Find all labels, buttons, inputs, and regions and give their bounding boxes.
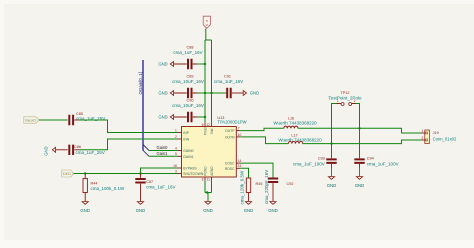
pin 2 INN: [175, 135, 190, 142]
svg-text:C92: C92: [287, 182, 294, 186]
svg-text:16: 16: [173, 164, 177, 168]
ground below C93: [327, 177, 337, 188]
svg-text:Gain1: Gain1: [157, 151, 169, 156]
wire C85 to INP: [79, 120, 178, 133]
svg-text:1: 1: [175, 128, 177, 132]
svg-text:GND: GND: [203, 208, 213, 213]
svg-text:J19: J19: [433, 131, 439, 135]
svg-text:GND: GND: [268, 208, 278, 213]
svg-text:13: 13: [238, 164, 242, 168]
svg-text:GND: GND: [250, 91, 259, 96]
wire VauxD to C85: [39, 119, 68, 121]
wire power stem: [205, 29, 207, 41]
svg-text:Gain0: Gain0: [157, 145, 169, 150]
pin 2 J19: [421, 136, 425, 140]
capacitor C86: [69, 145, 104, 155]
pin 16 BYPASS: [173, 164, 197, 171]
wire TP12 pin2 down to C94: [356, 104, 360, 159]
ground below C92: [268, 202, 278, 213]
wire C86 to INN: [79, 139, 178, 150]
pin 4 GAIN0: [175, 146, 194, 153]
svg-text:PGND: PGND: [203, 166, 207, 176]
pin 13 ROSC: [225, 164, 242, 171]
svg-text:GND: GND: [44, 146, 49, 155]
gnd flag left of C90: [158, 115, 173, 120]
ground below U13: [203, 202, 213, 213]
resistor R44: [83, 174, 125, 202]
svg-text:12: 12: [206, 123, 210, 127]
svg-text:10: 10: [238, 133, 242, 137]
wire bridge row 93: [205, 92, 212, 94]
svg-text:Conn_01x02: Conn_01x02: [433, 137, 457, 142]
gnd flag left of C88: [158, 62, 173, 67]
connector J19: [425, 130, 457, 144]
wire DED to SHUTDOWN: [74, 173, 178, 175]
svg-text:GND: GND: [80, 208, 90, 213]
svg-text:1: 1: [337, 99, 339, 103]
svg-text:cma_10uF_16V: cma_10uF_16V: [172, 79, 204, 84]
svg-text:GND: GND: [158, 62, 167, 67]
junction OUTN row / C93 branch: [330, 142, 332, 144]
capacitor C92: [264, 170, 293, 204]
svg-text:VauxD: VauxD: [25, 118, 37, 123]
wire ROSC to R45: [240, 168, 248, 178]
svg-text:C87: C87: [146, 180, 153, 184]
svg-text:GAIN1: GAIN1: [183, 155, 193, 159]
svg-text:Vdd: Vdd: [210, 128, 214, 134]
junction at C87: [139, 172, 141, 174]
wire COSC to C92: [240, 163, 273, 177]
hierarchical label VauxD: [24, 117, 39, 123]
capacitor C89: [172, 75, 205, 99]
ground below R44: [80, 202, 90, 213]
wire BYPASS drop: [141, 168, 178, 174]
pin 5 GAIN1: [175, 152, 194, 159]
inductor L16: [273, 116, 317, 128]
op-amp U13 TPA2000D1PW body: [182, 116, 247, 177]
svg-text:cma_1uF_16V: cma_1uF_16V: [173, 50, 202, 55]
svg-text:INP: INP: [183, 131, 189, 135]
junction PVdd row93: [204, 92, 206, 94]
svg-text:7: 7: [238, 127, 240, 131]
wire power split bridge: [205, 40, 212, 123]
junction bottom gnd: [206, 191, 208, 193]
pin 8 PGND (bottom): [202, 166, 208, 182]
svg-text:2: 2: [421, 136, 423, 140]
wire OUTN to L17: [240, 137, 288, 144]
svg-text:COSC: COSC: [225, 162, 235, 166]
ground below C87: [136, 202, 146, 213]
svg-text:cma_120k_0.5W: cma_120k_0.5W: [239, 170, 244, 205]
svg-text:1: 1: [421, 129, 423, 133]
svg-text:GAIN0: GAIN0: [183, 149, 193, 153]
svg-text:ROSC: ROSC: [225, 167, 235, 171]
svg-text:R45: R45: [256, 182, 263, 186]
svg-text:14: 14: [238, 159, 242, 163]
junction Vdd row93: [210, 92, 212, 94]
ground below R45: [244, 202, 254, 213]
capacitor C87: [135, 174, 175, 202]
svg-text:C86: C86: [74, 145, 81, 149]
svg-text:R44: R44: [91, 181, 98, 185]
gnd flag right of C91: [243, 91, 259, 96]
wire OUTP to L16: [240, 128, 283, 130]
pin 3 SHUTDOWN: [175, 169, 204, 176]
junction at C88/PVdd rail: [204, 63, 206, 65]
svg-text:8: 8: [202, 178, 204, 182]
pin 11 AGND (bottom): [207, 166, 214, 182]
svg-text:cma_1uF_100V: cma_1uF_100V: [367, 162, 399, 167]
pin 1 INP: [175, 128, 190, 135]
svg-text:GND: GND: [327, 183, 337, 188]
svg-text:C89: C89: [187, 75, 194, 79]
svg-text:AGND: AGND: [210, 166, 214, 176]
svg-text:cma_10uF_16V: cma_10uF_16V: [172, 103, 204, 108]
svg-text:cma_220pF_16V: cma_220pF_16V: [264, 170, 269, 204]
svg-text:C88: C88: [187, 46, 194, 50]
capacitor C91: [212, 75, 244, 99]
junction at R44: [84, 172, 86, 174]
svg-text:cma_1uF_100V: cma_1uF_100V: [293, 162, 325, 167]
svg-text:Wuerth 74438368220: Wuerth 74438368220: [273, 121, 317, 126]
svg-text:cma_1uF_16V: cma_1uF_16V: [214, 79, 243, 84]
svg-text:PVdd: PVdd: [203, 127, 207, 135]
capacitor C93: [293, 156, 337, 176]
svg-text:DED: DED: [63, 171, 71, 176]
bus entry to Gain0: [143, 145, 149, 151]
test point TP12: [328, 91, 362, 106]
svg-text:OUTN: OUTN: [225, 135, 235, 139]
hierarchical label DED: [62, 170, 74, 177]
svg-text:GND: GND: [158, 115, 167, 120]
capacitor C94: [354, 156, 398, 176]
svg-text:SHUTDOWN: SHUTDOWN: [183, 172, 204, 176]
wire TP12 pin1 down to C93: [332, 104, 337, 159]
wire L16 to J19 pin1: [298, 128, 421, 133]
svg-text:TPA2000D1PW: TPA2000D1PW: [217, 120, 246, 125]
pin 1 J19: [421, 129, 425, 133]
power flag 5V (global label at top): [203, 16, 210, 28]
wire L17 to J19 pin2: [303, 140, 421, 144]
capacitor C85: [69, 112, 105, 125]
svg-text:2: 2: [175, 135, 177, 139]
svg-text:cma_1uF_16V: cma_1uF_16V: [146, 185, 175, 190]
capacitor C88: [173, 46, 205, 69]
inductor L17: [278, 134, 322, 144]
pin 10 OUTN: [225, 133, 242, 140]
svg-text:OGain[0..1]: OGain[0..1]: [138, 72, 143, 94]
svg-text:cma_100k_0.1W: cma_100k_0.1W: [91, 186, 126, 191]
svg-text:C91: C91: [224, 75, 231, 79]
pin 12 Vdd (top): [206, 123, 213, 135]
svg-text:OUTP: OUTP: [225, 129, 235, 133]
svg-text:3: 3: [175, 169, 177, 173]
svg-text:6: 6: [202, 123, 204, 127]
svg-text:cma_1uF_25V: cma_1uF_25V: [76, 150, 105, 155]
svg-text:GND: GND: [136, 208, 146, 213]
svg-text:GND: GND: [158, 91, 167, 96]
pin 7 OUTP: [225, 127, 240, 134]
ground below C94: [355, 177, 365, 188]
svg-text:C94: C94: [367, 156, 374, 160]
gnd flag left of C86: [44, 146, 68, 155]
junction OUTP row / C94 branch: [358, 127, 360, 129]
svg-text:2: 2: [354, 99, 356, 103]
wire Gain1: [149, 151, 178, 157]
svg-text:4: 4: [175, 146, 177, 150]
resistor R45: [239, 170, 262, 205]
svg-text:GND: GND: [355, 183, 365, 188]
svg-text:C93: C93: [318, 156, 325, 160]
bus OGain[0..1]: [138, 60, 143, 151]
svg-text:TP12: TP12: [340, 91, 349, 95]
pin 14 COSC: [225, 159, 242, 166]
pin 6 PVdd (top): [202, 123, 208, 136]
gnd flag left of C89: [158, 91, 173, 96]
wire PGND/AGND to ground: [205, 181, 212, 201]
svg-text:BYPASS: BYPASS: [183, 167, 197, 171]
svg-text:INN: INN: [183, 138, 189, 142]
capacitor C90: [172, 99, 205, 123]
svg-text:5: 5: [175, 152, 177, 156]
junction PVdd row117: [204, 116, 206, 118]
wire Gain0: [149, 145, 178, 151]
svg-text:11: 11: [207, 178, 211, 182]
svg-text:TestPoint_2Pole: TestPoint_2Pole: [328, 95, 362, 100]
svg-text:C90: C90: [187, 99, 194, 103]
svg-text:GND: GND: [244, 208, 254, 213]
bus entry to Gain1: [143, 150, 149, 156]
